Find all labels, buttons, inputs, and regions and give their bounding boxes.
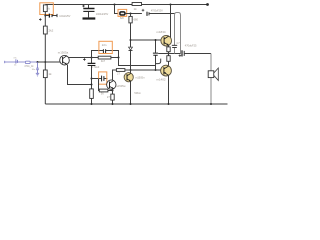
wire V1 to node <box>44 12 46 27</box>
wire C9 to speaker <box>185 53 211 55</box>
svg-text:4.7: 4.7 <box>176 42 180 45</box>
wire Q5 emitter <box>168 75 170 104</box>
node Wb join <box>155 69 157 71</box>
highlight box R5 <box>118 9 127 16</box>
svg-text:50hm: 50hm <box>134 91 141 95</box>
source V1 ticks <box>16 59 18 63</box>
wire blue branch down <box>37 62 39 68</box>
highlight box R1 <box>40 3 54 15</box>
wire C1 lead <box>45 15 49 17</box>
resistor R3 <box>43 70 47 78</box>
wire C6 chain <box>155 40 157 70</box>
wire Q3 emitter <box>130 82 132 105</box>
node C6 top <box>155 39 157 41</box>
highlight box C7 <box>99 41 112 53</box>
node R7 rail <box>91 103 93 105</box>
capacitor C2 power filter lead <box>88 5 90 9</box>
resistor R12 <box>167 47 170 52</box>
resistor R8 feedback <box>98 56 111 59</box>
node emitter join <box>91 84 93 86</box>
wire input source blue <box>5 61 38 63</box>
wire R9 right <box>108 90 113 92</box>
node mid rail <box>130 69 132 71</box>
resistor R11 <box>116 69 125 72</box>
capacitor C1 plus <box>39 18 42 21</box>
node input-bias <box>44 61 46 63</box>
node B <box>118 57 120 59</box>
wire R8 leads <box>92 57 119 59</box>
node Q4 base <box>130 39 132 41</box>
svg-text:m1505a: m1505a <box>58 50 69 54</box>
node junction top rail V2 <box>114 4 116 6</box>
ground input blue <box>36 73 39 76</box>
svg-text:470n_1k: 470n_1k <box>24 65 34 68</box>
wire hook Q5 collector <box>156 59 161 64</box>
wire R13 to Q5 <box>168 61 170 66</box>
wire Q1 emitter <box>68 65 92 85</box>
capacitor C5 <box>146 12 148 16</box>
svg-text:22n: 22n <box>102 43 107 47</box>
resistor R10 <box>111 94 114 100</box>
wire C4 down <box>91 66 93 89</box>
node Q5 rail <box>168 103 170 105</box>
svg-text:470duF25: 470duF25 <box>185 43 197 47</box>
svg-text:4k7: 4k7 <box>101 59 106 63</box>
node Q3 rail <box>130 103 132 105</box>
node base tap <box>91 78 93 80</box>
ground bar C2 <box>83 17 96 19</box>
transistor Q1 <box>60 55 70 65</box>
wire Q4 collector <box>170 5 172 38</box>
node B13 <box>130 13 132 15</box>
node input junction <box>37 61 39 63</box>
wire V1 bottom <box>44 78 46 104</box>
wire node B down to Wa <box>119 58 156 66</box>
wire Q1 collector <box>69 57 92 59</box>
capacitor C8 <box>102 76 104 82</box>
transistor Q3 <box>130 70 132 73</box>
wire output rail <box>158 53 181 55</box>
wire C4 lead <box>91 58 93 64</box>
wire Q2 emitter down <box>112 89 114 94</box>
capacitor C9 plus <box>179 54 182 57</box>
wire Q4 base <box>131 39 162 41</box>
wire Q4 emitter chain <box>168 45 170 47</box>
svg-text:m1505n: m1505n <box>135 75 145 79</box>
terminal tick input <box>4 61 6 63</box>
wire C1 right lead <box>53 15 57 17</box>
capacitor C9 <box>181 50 183 56</box>
wire bottom ground rail <box>45 103 227 105</box>
wire R7 to rail <box>91 98 93 104</box>
svg-text:m1834: m1834 <box>156 30 166 34</box>
svg-text:680: 680 <box>134 17 139 21</box>
node speaker rail <box>210 103 212 105</box>
wire base cap branch <box>92 78 108 80</box>
capacitor C4 plus <box>83 58 86 61</box>
svg-text:2k2: 2k2 <box>49 28 54 32</box>
wire input to Q1 <box>38 61 60 63</box>
node terminal top-right <box>206 3 209 6</box>
resistor R13 <box>167 56 170 62</box>
wire bootstrap loop <box>175 13 181 54</box>
capacitor C7 <box>103 49 105 53</box>
resistor R5 <box>120 12 125 15</box>
wire C5 right lead <box>149 13 174 15</box>
transistor Q5 <box>161 65 172 76</box>
component blue box <box>25 61 30 64</box>
node R10 rail <box>112 103 114 105</box>
wire C7 loop <box>92 51 119 58</box>
transistor Q2 <box>107 80 116 89</box>
wire R9 tap <box>98 79 101 91</box>
wire R10 to rail <box>112 100 114 104</box>
svg-text:100uF25V: 100uF25V <box>59 15 70 18</box>
capacitor C1 <box>48 14 50 18</box>
node emitter R <box>112 90 114 92</box>
capacitor C2 plates <box>83 8 94 10</box>
node A1 <box>44 15 46 17</box>
resistor R6 680 <box>130 14 132 17</box>
wire V2 from rail down <box>115 5 118 14</box>
svg-text:4700uF25V: 4700uF25V <box>151 11 163 13</box>
resistor R1 <box>43 5 47 12</box>
capacitor C3 blue <box>36 68 39 70</box>
svg-text:m1402: m1402 <box>156 77 166 81</box>
wire D1 down <box>130 51 132 70</box>
wire top supply rail <box>45 4 207 6</box>
svg-text:1k: 1k <box>48 72 52 76</box>
capacitor C5 plus <box>142 9 145 12</box>
speaker LS1 <box>210 54 212 105</box>
capacitor C2 plus <box>82 5 85 8</box>
wire Q2 collector up <box>113 70 117 80</box>
ground tick C1 <box>56 14 58 17</box>
resistor R9 <box>99 89 108 92</box>
resistor R7 <box>90 89 94 99</box>
highlight box C8 <box>99 72 107 84</box>
svg-text:1000uF25V: 1000uF25V <box>96 13 109 16</box>
resistor R4 top rail <box>132 3 141 6</box>
wire R6 to diode node <box>130 23 132 47</box>
wire R11 right <box>125 69 131 71</box>
node junction top rail V5 <box>170 4 172 6</box>
node A <box>91 57 93 59</box>
diode D1 <box>129 47 133 50</box>
svg-text:4.7duF: 4.7duF <box>91 65 99 69</box>
transistor Q4 <box>161 35 172 46</box>
resistor R2 <box>43 26 47 34</box>
capacitor C10 <box>172 45 177 47</box>
capacitor C4 plates <box>88 62 96 64</box>
capacitor C6 <box>153 53 158 55</box>
node output <box>168 53 170 55</box>
wire R5 to node <box>125 13 142 15</box>
wire C2 lower lead <box>88 12 90 17</box>
wire Q5 base run <box>131 69 161 71</box>
svg-text:a1505w: a1505w <box>116 84 125 88</box>
wire V1 mid <box>44 34 46 70</box>
wire blue to ground <box>37 70 39 73</box>
svg-text:1%: 1% <box>13 57 16 59</box>
wire R12 to node <box>168 52 170 56</box>
svg-text:1k: 1k <box>134 7 138 11</box>
